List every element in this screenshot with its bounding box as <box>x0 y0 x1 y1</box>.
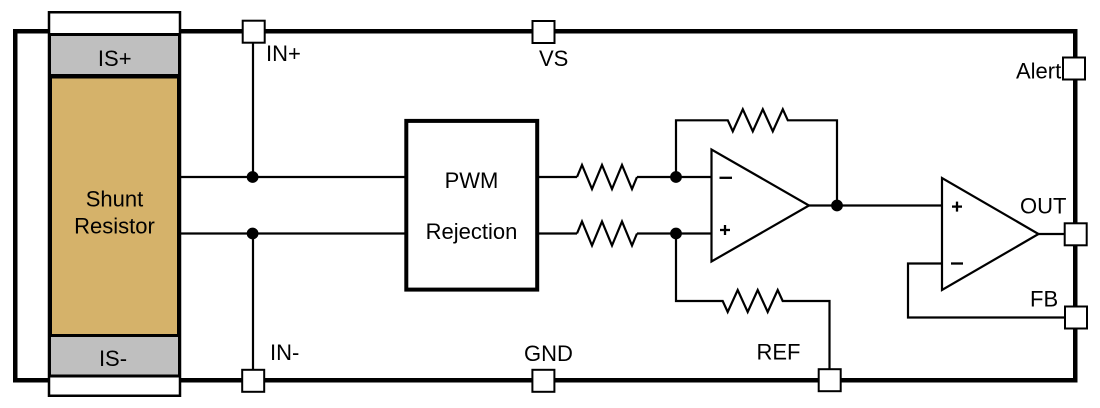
svg-text:OUT: OUT <box>1020 194 1066 219</box>
svg-text:IS+: IS+ <box>98 46 132 71</box>
svg-text:VS: VS <box>539 46 568 71</box>
svg-text:Rejection: Rejection <box>426 219 518 244</box>
svg-text:GND: GND <box>524 341 573 366</box>
svg-text:REF: REF <box>757 340 801 365</box>
svg-text:IN-: IN- <box>270 340 299 365</box>
svg-text:IS-: IS- <box>99 346 127 371</box>
svg-text:Shunt: Shunt <box>86 187 144 212</box>
svg-text:Resistor: Resistor <box>74 214 155 239</box>
svg-text:Alert: Alert <box>1016 59 1061 84</box>
svg-text:IN+: IN+ <box>266 41 301 66</box>
svg-text:PWM: PWM <box>445 168 499 193</box>
svg-text:FB: FB <box>1030 287 1058 312</box>
